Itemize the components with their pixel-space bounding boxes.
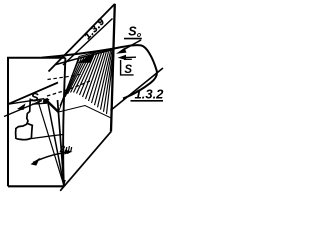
junction blob at V (62, 180, 66, 187)
wobbly line from squiggle to axis (32, 135, 65, 139)
converging lines to bottom vertex V (47, 98, 64, 186)
hatched sliver boundary (59, 49, 115, 119)
svg-text:S: S (124, 64, 132, 76)
svg-text:2ψ: 2ψ (59, 144, 73, 155)
dashed arc upper (48, 74, 83, 80)
dashed arc lower (47, 81, 91, 97)
junction blob at T (43, 99, 50, 105)
inner arc under (56, 50, 114, 65)
trajectory arrowhead on arc (80, 54, 94, 63)
S bar label (124, 58, 132, 60)
left lines to rectangle edge (8, 83, 58, 105)
diagonal from V up-right (edge of plane 1.3.2) (60, 131, 111, 191)
2-psi angle arc (33, 152, 70, 163)
line of plane 1.3.2 crossing arc end (111, 68, 164, 111)
thick wedge from tangency to fan point (46, 100, 59, 112)
plane 1.3.9 right vertical edge (111, 4, 115, 131)
squiggle blob (16, 99, 33, 140)
hatch lines (60, 50, 114, 114)
plane 1.3.9 lower band edge (63, 19, 113, 66)
line from tangency point down-left (4, 101, 42, 117)
svg-text:S: S (128, 25, 137, 39)
big trajectory arc (42, 45, 157, 98)
Sn arrow (123, 40, 141, 50)
plane rectangle (left) (8, 58, 65, 187)
plane 1.3.9 upper-left edge (49, 4, 115, 72)
S arrow (horizontal, pointing left) (124, 56, 136, 58)
svg-text:1.3.2: 1.3.2 (135, 87, 165, 102)
